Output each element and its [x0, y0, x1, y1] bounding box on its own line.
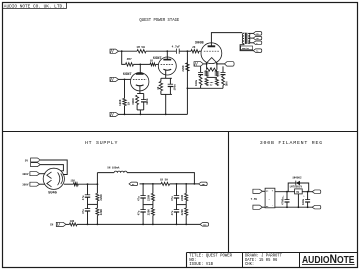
- svg-text:1K 5W: 1K 5W: [160, 179, 168, 182]
- resistor V1 cathode: [136, 95, 139, 104]
- reg bottom rail: [275, 206, 313, 208]
- node rail 2: [140, 114, 142, 116]
- node cap out gnd: [307, 206, 309, 208]
- tube 5U4G anode 2: [47, 180, 52, 187]
- ground rail wire: [119, 113, 188, 115]
- svg-text:220K: 220K: [147, 209, 150, 216]
- HT terminal 300V a: [30, 172, 40, 176]
- HT terminal 5V b: [31, 163, 41, 167]
- diode 1N4002: [296, 181, 300, 185]
- link caps bleeder: [88, 203, 98, 205]
- svg-text:AUDIONOTE: AUDIONOTE: [302, 252, 355, 266]
- wire reg out: [302, 191, 312, 193]
- node row g1r: [152, 183, 154, 185]
- svg-text:HT SUPPLY: HT SUPPLY: [85, 140, 118, 146]
- regulator box: [295, 189, 303, 194]
- wire network to ground: [187, 87, 200, 89]
- node riser: [97, 183, 99, 185]
- svg-text:680R: 680R: [132, 98, 135, 105]
- svg-text:CH: CH: [50, 224, 54, 227]
- tube 5U4G filament: [58, 172, 60, 185]
- section divider vertical: [228, 132, 230, 253]
- node V1 anode: [139, 64, 141, 66]
- svg-text:1M 5W: 1M 5W: [136, 46, 145, 49]
- svg-text:4700u: 4700u: [282, 197, 285, 205]
- svg-text:4M7: 4M7: [127, 58, 132, 61]
- node driver anode junction: [166, 50, 168, 52]
- wire to V2 grid: [156, 63, 159, 65]
- resistor ground lift 10R: [69, 223, 77, 226]
- reg output terminal top: [312, 190, 321, 194]
- svg-text:300V: 300V: [22, 184, 29, 187]
- svg-text:150: 150: [70, 179, 75, 182]
- node gnd 4: [152, 224, 154, 226]
- tube V2 cathode lead: [165, 70, 167, 79]
- tube 300B anode lead: [211, 33, 242, 47]
- svg-text:10R: 10R: [70, 220, 75, 223]
- wire sec tap 1: [248, 32, 253, 34]
- svg-text:QUEST POWER STAGE: QUEST POWER STAGE: [139, 17, 179, 24]
- tube 300B filament: [207, 58, 217, 63]
- wire rk lead: [160, 78, 162, 81]
- tube 5U4G envelope: [43, 168, 64, 189]
- wire CH to resistor: [66, 223, 69, 225]
- filter group 2: [176, 184, 178, 196]
- svg-text:5U4G: 5U4G: [48, 192, 57, 196]
- tube 300B envelope: [201, 43, 222, 64]
- node grid leak junction: [124, 79, 126, 81]
- wire grid leak to rail: [124, 106, 126, 115]
- node gnd 6: [185, 224, 187, 226]
- svg-text:AUDIO NOTE CO. UK. LTD.: AUDIO NOTE CO. UK. LTD.: [4, 3, 65, 9]
- resistor 1M 5W: [137, 50, 146, 53]
- svg-text:5K6: 5K6: [226, 81, 229, 86]
- svg-text:1W: 1W: [128, 102, 131, 106]
- reg ground pin: [297, 194, 299, 207]
- HT terminal 5V a: [31, 158, 41, 162]
- wire stopper to 300B grid: [199, 50, 201, 52]
- svg-text:7.5V: 7.5V: [251, 198, 258, 201]
- OB+ terminal HT: [199, 182, 208, 186]
- svg-text:47u: 47u: [82, 195, 85, 200]
- tube V1 plate: [136, 73, 144, 75]
- node gnd 3: [142, 224, 144, 226]
- wire C1 to grid stopper: [179, 50, 191, 52]
- B+ terminal top: [253, 49, 262, 53]
- resistor fil left lower: [205, 78, 208, 85]
- node rail 1: [124, 114, 126, 116]
- wire B+ row right: [170, 183, 199, 185]
- wire R1 to C1: [146, 50, 176, 52]
- wire V1 cathode to rail: [139, 110, 141, 115]
- svg-text:100u: 100u: [146, 98, 149, 105]
- wire V2 cathode to rail: [165, 94, 167, 114]
- cathode mid bar: [207, 76, 217, 78]
- bleeder chain: [96, 184, 98, 193]
- svg-text:LM7805CV: LM7805CV: [290, 186, 303, 189]
- company header cell: [2, 8, 67, 10]
- wire V1 ck leads: [143, 94, 145, 100]
- svg-text:2K: 2K: [192, 46, 196, 49]
- svg-text:47u: 47u: [171, 196, 174, 201]
- diode bypass loop: [288, 183, 296, 192]
- wire 5V a: [40, 160, 67, 175]
- resistor 150R: [73, 183, 78, 186]
- transformer secondary coil: [248, 33, 250, 36]
- speaker terminal 0R: [253, 41, 262, 45]
- choke coil: [114, 171, 117, 173]
- wire grid leak drop: [124, 79, 126, 98]
- wire input to R1: [119, 50, 138, 52]
- wire 300B grid leak vertical: [186, 51, 188, 114]
- resistor grid stopper 2K2: [191, 50, 199, 53]
- node feedback tap: [121, 50, 123, 52]
- svg-text:47u: 47u: [138, 210, 141, 215]
- title block frame: [187, 252, 358, 254]
- section divider horizontal: [2, 131, 358, 133]
- svg-text:100u: 100u: [302, 198, 305, 205]
- resistor 4M7 anode load: [126, 63, 134, 66]
- resistor fil right lower: [215, 78, 218, 85]
- tube 5U4G anode 1: [47, 172, 52, 179]
- filter group 1: [142, 184, 144, 196]
- V2 cathode bottom bar: [161, 93, 172, 95]
- svg-text:6SN7: 6SN7: [123, 73, 132, 77]
- node rail 3: [165, 114, 167, 116]
- node fil left: [206, 63, 208, 65]
- V1 cathode top bar: [137, 93, 144, 95]
- tube V2 cathode: [163, 68, 171, 71]
- resistor 1K grid stop: [150, 63, 156, 66]
- svg-text:300B: 300B: [195, 41, 205, 45]
- node fil right: [216, 63, 218, 65]
- tube 300B plate: [208, 45, 216, 47]
- svg-text:220K: 220K: [181, 209, 184, 216]
- wire ck leads: [169, 78, 171, 84]
- wire sec tap 2: [248, 37, 253, 39]
- wire 300V a: [40, 173, 46, 175]
- transformer primary coil: [242, 33, 244, 36]
- resistor hum 1R: [207, 68, 217, 71]
- B+ terminal HT: [129, 182, 138, 186]
- tube V2 grid dashes: [161, 63, 174, 65]
- tube V1 grid dashes: [133, 78, 147, 80]
- svg-text:ISSUE: V1B: ISSUE: V1B: [189, 263, 213, 267]
- svg-text:47u: 47u: [138, 196, 141, 201]
- node row g2r: [185, 183, 187, 185]
- wire 300V b: [40, 183, 45, 185]
- wire bridge in bottom: [262, 206, 265, 208]
- HT terminal 300V b: [30, 182, 40, 186]
- right flank branch: [222, 66, 224, 72]
- HT ground rail: [77, 223, 200, 225]
- reg cap out: [307, 192, 309, 200]
- wire rectifier output: [64, 183, 74, 185]
- svg-text:1K: 1K: [157, 86, 160, 90]
- svg-text:47u: 47u: [171, 210, 174, 215]
- speaker terminal 4R: [253, 36, 262, 40]
- svg-text:220K: 220K: [182, 65, 185, 72]
- filament leg right: [216, 63, 218, 70]
- svg-text:100u: 100u: [195, 79, 198, 86]
- svg-text:1N4002: 1N4002: [292, 177, 302, 180]
- node gnd 5: [176, 224, 178, 226]
- input terminal J2: [110, 77, 119, 81]
- V1 cathode bottom bar: [137, 109, 144, 111]
- riser to choke rail: [96, 173, 98, 185]
- svg-text:100K: 100K: [119, 99, 122, 106]
- svg-text:CHK:: CHK:: [245, 263, 254, 267]
- wire V1 rk lead: [136, 105, 138, 110]
- svg-text:47u: 47u: [82, 209, 85, 214]
- wire fil term left: [203, 63, 206, 65]
- capacitor V2 cathode 100u: [168, 83, 173, 85]
- wire B+ row left: [140, 183, 162, 185]
- filament terminal right: [225, 62, 235, 66]
- resistor V1 grid leak: [123, 98, 126, 105]
- reservoir cap chain: [87, 184, 89, 195]
- capacitor V1 cathode: [141, 99, 146, 101]
- GND terminal HT: [200, 223, 209, 227]
- reg input terminal top: [253, 189, 263, 193]
- reg output terminal bottom: [312, 205, 321, 209]
- filament terminal left: [194, 62, 203, 66]
- tube V2 anode lead: [166, 51, 168, 59]
- wire V1 anode lead: [139, 64, 141, 74]
- node cap in gnd: [286, 206, 288, 208]
- reg input terminal bottom: [253, 205, 263, 209]
- tube V2 plate: [163, 59, 171, 61]
- svg-text:100u: 100u: [174, 84, 177, 91]
- capacitor 4.7uF: [175, 49, 177, 54]
- node gnd 2: [97, 224, 99, 226]
- filament leg left: [206, 63, 208, 70]
- resistor fil right upper: [215, 71, 218, 77]
- resistor V2 cathode 1K: [159, 82, 162, 91]
- choke rail right: [127, 173, 194, 184]
- wire bridge to reg: [275, 191, 295, 193]
- wire drop to V1 stage: [122, 51, 126, 64]
- svg-text:4.7uF: 4.7uF: [172, 46, 181, 49]
- svg-text:220K: 220K: [100, 194, 103, 201]
- resistor 300B grid leak 220K: [186, 63, 189, 71]
- node row g1c: [142, 183, 144, 185]
- svg-text:5V: 5V: [25, 159, 29, 162]
- node reservoir: [87, 183, 89, 185]
- svg-text:220K: 220K: [100, 209, 103, 216]
- cathode network bottom bar: [201, 87, 223, 89]
- svg-text:5H 100mA: 5H 100mA: [107, 167, 120, 170]
- tube 300B grid dashes: [204, 50, 219, 52]
- svg-text:220K: 220K: [147, 194, 150, 201]
- resistor fil left upper: [205, 71, 208, 77]
- tube V1 cathode lead: [139, 85, 141, 93]
- svg-text:300V: 300V: [22, 173, 29, 176]
- input terminal J1: [110, 49, 119, 53]
- tube V2 envelope: [158, 57, 176, 75]
- tube V1 envelope: [131, 73, 149, 91]
- wire to anode node: [134, 63, 151, 65]
- wire fil term right: [217, 63, 225, 65]
- svg-text:220K: 220K: [181, 194, 184, 201]
- choke rail left: [97, 172, 114, 174]
- svg-text:2K5/8R: 2K5/8R: [242, 47, 250, 50]
- chassis terminal CH: [56, 222, 66, 226]
- reg cap in: [286, 192, 288, 200]
- bridge rectifier box: [265, 188, 275, 208]
- V2 cathode top bar: [161, 77, 172, 79]
- node cap out: [307, 191, 309, 193]
- node cap in: [286, 191, 288, 193]
- speaker terminal 8R: [253, 32, 262, 36]
- wire to first node: [78, 183, 97, 185]
- svg-text:300B FILAMENT REG: 300B FILAMENT REG: [260, 140, 323, 146]
- node grid leak tap: [187, 50, 189, 52]
- tube V1 cathode: [136, 84, 144, 87]
- wire 5V b: [40, 165, 63, 171]
- wire bridge in top: [262, 190, 265, 192]
- transformer core: [244, 33, 246, 44]
- node gnd pin: [298, 206, 300, 208]
- node gnd 1: [87, 224, 89, 226]
- wire primary bottom: [240, 44, 253, 51]
- left flank branch: [200, 66, 202, 72]
- transformer spec box: [241, 46, 253, 50]
- ground terminal J3: [110, 112, 119, 116]
- wire sec tap 3: [248, 42, 253, 44]
- node row choke: [194, 183, 196, 185]
- resistor 1K 5W row: [161, 182, 170, 185]
- node row g2c: [176, 183, 178, 185]
- wire J2 to V1 grid: [119, 78, 131, 80]
- node network gnd: [187, 87, 189, 89]
